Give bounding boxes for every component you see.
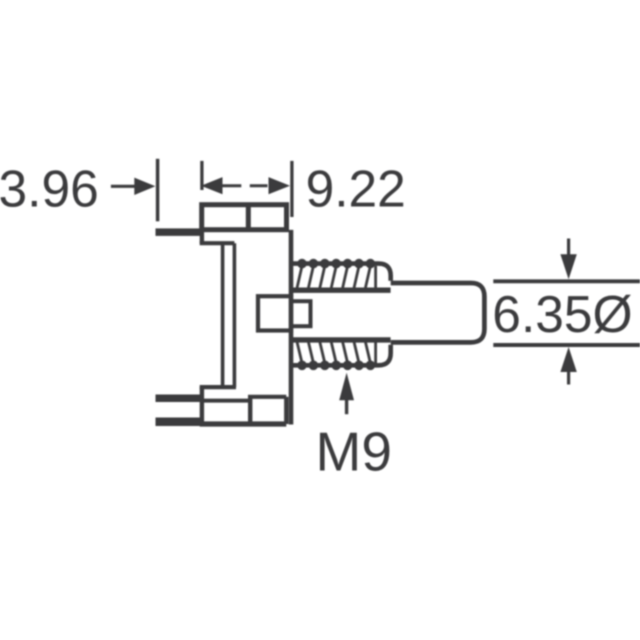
svg-text:3.96: 3.96 <box>0 160 99 218</box>
svg-text:9.22: 9.22 <box>306 160 406 218</box>
svg-text:M9: M9 <box>316 420 392 482</box>
svg-text:6.35Ø: 6.35Ø <box>492 285 632 343</box>
